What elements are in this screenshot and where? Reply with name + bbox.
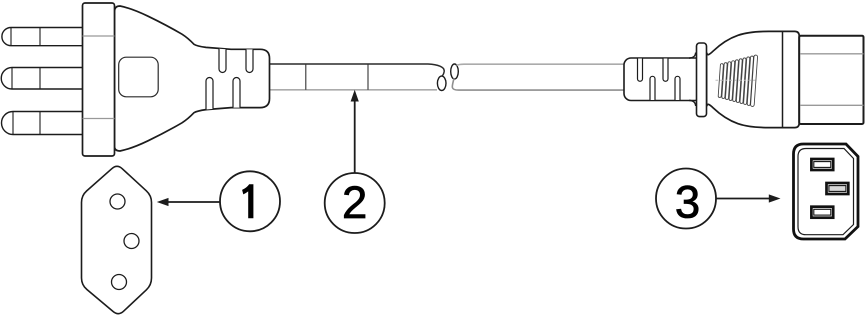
face F2 slot middle <box>827 183 849 194</box>
arrow 3 <box>716 198 769 200</box>
svg-text:2: 2 <box>342 177 367 228</box>
face view F1: wall plug face hexagon <box>82 166 152 313</box>
strain relief rib top 2 <box>663 59 668 82</box>
waist fillet bottom-left <box>689 100 696 106</box>
wire: left cable segment top line <box>266 64 444 76</box>
plate seam line lower <box>83 118 115 120</box>
plate seam line upper <box>83 35 115 37</box>
face F2 inner outline <box>798 149 854 235</box>
wire: left cable segment bottom line <box>266 89 437 91</box>
plug P1 body (molded housing) <box>115 6 270 151</box>
face F1 pin hole middle <box>124 234 139 249</box>
plug P1 nozzle rib bottom 2 <box>233 78 240 108</box>
numeral 1 <box>242 184 253 218</box>
svg-text:3: 3 <box>675 177 700 228</box>
face F1 pin hole top <box>110 194 125 209</box>
wire: right cable segment top line <box>457 64 630 65</box>
grip mold seam line <box>716 79 758 81</box>
wire: right cable segment bottom line <box>452 79 630 91</box>
arrow 1 <box>167 201 220 203</box>
strain relief rib top 1 <box>638 59 643 82</box>
flange front edge line <box>782 31 784 127</box>
plug P1 pin 1 <box>2 28 84 46</box>
head seam line upper <box>800 53 863 55</box>
face F2 slot bottom <box>811 207 833 218</box>
cable divider line 2 <box>367 64 369 90</box>
plug P1 label recess <box>119 57 159 97</box>
face F2 slot top <box>811 159 833 170</box>
plug P1 face plate <box>83 3 115 156</box>
plug P1 pin 2 <box>1 68 84 90</box>
connector P2 waist collar disc <box>697 43 707 117</box>
cable break loop right <box>451 64 459 79</box>
waist fillet top-left <box>689 53 696 59</box>
strain relief rib bottom 1 <box>650 76 655 100</box>
plug P1 pin 3 <box>1 112 84 135</box>
plug P1 nozzle rib bottom 1 <box>206 78 213 110</box>
grip ribs <box>718 55 758 107</box>
head seam line lower <box>800 104 863 106</box>
strain relief rib bottom 2 <box>675 76 680 100</box>
plug P1 nozzle rib top 1 <box>219 49 226 73</box>
cable divider line 1 <box>305 64 307 90</box>
plug P1 nozzle rib top 2 <box>246 49 253 72</box>
arrow 2 <box>354 101 356 173</box>
callout circle 2 <box>325 173 385 233</box>
connector P2 grip body (with flange) <box>707 31 800 127</box>
callout circle 1 <box>220 171 280 231</box>
face view F2: C13 connector face outer <box>794 144 859 239</box>
connector P2 head (IEC C13 rear) <box>799 36 863 124</box>
connector P2 strain relief <box>624 58 702 101</box>
face F1 pin hole bottom <box>112 275 127 290</box>
callout circle 3 <box>656 169 716 229</box>
cable break loop left <box>437 76 446 90</box>
